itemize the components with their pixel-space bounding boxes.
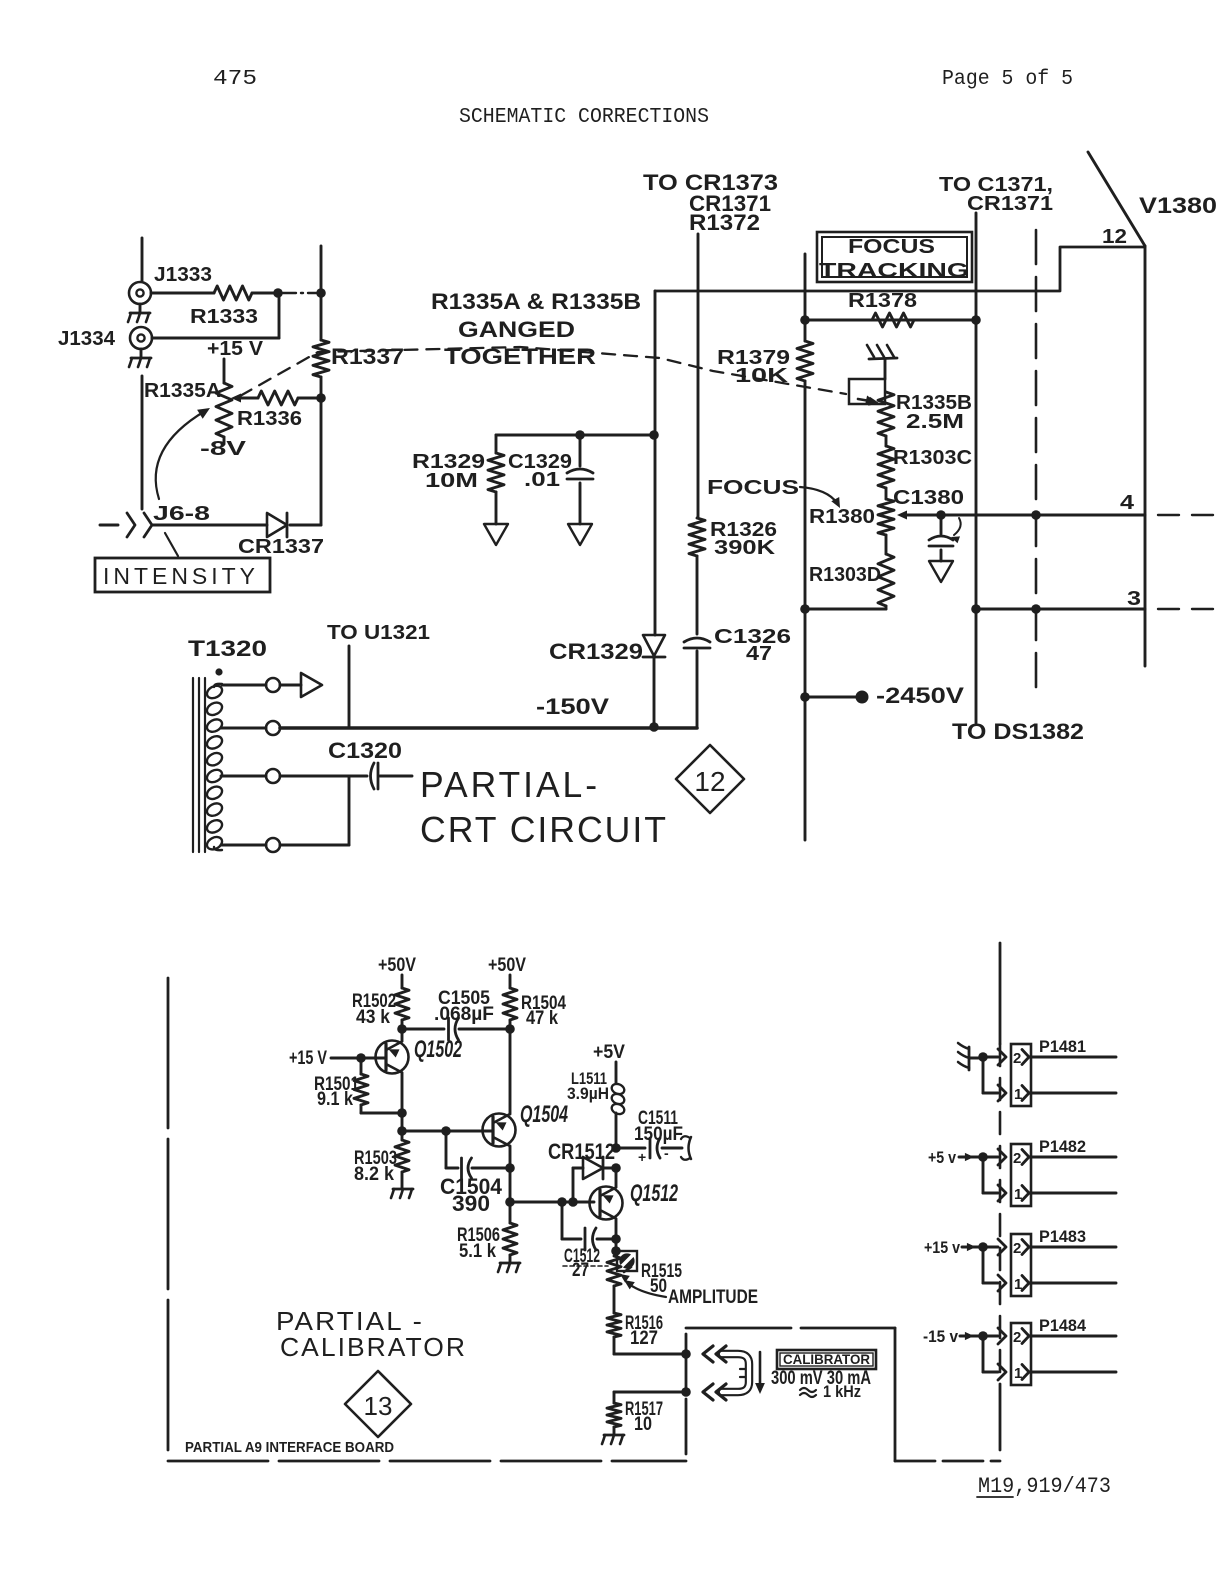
label J1334 <box>58 328 116 350</box>
svg-text:43 k: 43 k <box>356 1007 390 1028</box>
label R1337 <box>331 344 404 369</box>
svg-text:C1320: C1320 <box>328 738 402 763</box>
cal loop arrows bottom <box>703 1384 726 1400</box>
capacitor C1320 <box>371 763 379 789</box>
label R1506 <box>457 1225 500 1262</box>
label C1380 <box>893 487 964 509</box>
svg-text:INTENSITY: INTENSITY <box>103 563 259 589</box>
label CR1337 <box>238 536 324 558</box>
svg-text:Q1502: Q1502 <box>414 1036 462 1063</box>
connector P1484 body <box>1011 1323 1031 1385</box>
P1481 tie wire <box>978 1052 998 1093</box>
wire to Q1504 base <box>402 1130 493 1133</box>
resistor R1333 <box>214 286 252 300</box>
wire left vertical to J6-8 <box>141 376 144 509</box>
label R1503 <box>354 1148 397 1185</box>
svg-text:C1380: C1380 <box>893 487 964 509</box>
label 300mV 30mA <box>771 1368 871 1389</box>
svg-text:+: + <box>638 1149 646 1165</box>
svg-text:+50V: +50V <box>378 955 416 976</box>
wire tap1 <box>222 684 266 687</box>
label R1504 <box>521 993 566 1029</box>
svg-text:TO U1321: TO U1321 <box>327 622 430 644</box>
label C1505 <box>434 988 494 1025</box>
svg-text:12: 12 <box>1102 226 1127 248</box>
arrow +15V feed <box>962 1243 983 1251</box>
P1481 pin 1 <box>1014 1086 1116 1104</box>
label TO U1321 <box>327 622 430 644</box>
resistor R1504 <box>503 988 517 1029</box>
resistor R1336 <box>258 391 298 405</box>
wire tap1 to arrow <box>280 684 301 687</box>
node R1501 top <box>356 1053 366 1063</box>
flag diamond 12 <box>676 745 744 813</box>
label P1483 <box>1039 1227 1086 1246</box>
diode CR1329 <box>643 635 665 657</box>
wire C1512 branch <box>562 1202 581 1239</box>
wire C1512 right <box>597 1238 616 1241</box>
node CR1512/collector <box>611 1163 621 1173</box>
svg-text:M19,919/473: M19,919/473 <box>978 1474 1111 1499</box>
svg-text:3.9µH: 3.9µH <box>567 1084 609 1103</box>
wire C1320 right <box>380 775 412 778</box>
wire C1511 right <box>662 1147 682 1150</box>
label pin 4 <box>1120 492 1135 514</box>
svg-text:CR1371: CR1371 <box>967 193 1053 215</box>
ground under C1329 <box>568 524 592 545</box>
curved arrow C1380 <box>951 518 961 543</box>
wire R1333 to node <box>252 292 278 295</box>
page header Page 5 of 5 <box>942 68 1073 91</box>
svg-text:CR1512: CR1512 <box>548 1139 615 1164</box>
label R1335B <box>896 392 972 433</box>
svg-text:2: 2 <box>1013 1050 1021 1067</box>
label Q1512 <box>630 1180 678 1207</box>
label C1512 <box>563 1246 608 1281</box>
terminal tap1 <box>266 678 280 692</box>
wire +50V right <box>509 975 512 988</box>
node C1380 tap <box>936 510 946 520</box>
svg-text:Q1504: Q1504 <box>520 1101 568 1128</box>
P1484 pin 2 <box>1013 1329 1116 1347</box>
node pin3 dash cross <box>1031 604 1041 614</box>
label R1379 <box>717 347 790 387</box>
svg-text:5.1 k: 5.1 k <box>459 1241 496 1262</box>
note GANGED <box>458 317 575 342</box>
label +5V feed <box>928 1148 956 1167</box>
terminal tap3 <box>266 769 280 783</box>
wire R1326 to C1326 <box>696 556 699 634</box>
wire Q1512 collector <box>615 1168 618 1187</box>
label box CALIBRATOR <box>777 1350 876 1369</box>
resistor R1378 <box>872 313 914 327</box>
transistor Q1512 <box>590 1187 623 1220</box>
flag diamond 13 <box>345 1371 411 1437</box>
dashed vertical DS1382 net <box>1035 230 1038 688</box>
label C1326 <box>714 626 791 665</box>
svg-text:CR1329: CR1329 <box>549 639 643 664</box>
svg-text:CR1337: CR1337 <box>238 536 324 558</box>
node C1504 top <box>441 1126 451 1136</box>
node CR1512 bottom <box>568 1197 578 1207</box>
label C1504 <box>440 1174 503 1216</box>
wire C1505 left <box>402 1028 444 1031</box>
P1482 pin 1 <box>1014 1186 1116 1204</box>
connector J1333 <box>129 282 151 304</box>
node R1504 bottom <box>505 1024 515 1034</box>
svg-text:SCHEMATIC CORRECTIONS: SCHEMATIC CORRECTIONS <box>459 106 709 129</box>
wire CR1329 to -150V <box>653 657 656 727</box>
svg-text:R1333: R1333 <box>190 306 258 328</box>
wire Q1502 emitter down <box>401 1073 404 1131</box>
wire TO U1321 vertical <box>348 646 351 727</box>
svg-text:+50V: +50V <box>488 955 526 976</box>
wire Q1512 emitter <box>615 1219 618 1251</box>
wire C1505 right <box>459 1028 510 1031</box>
node C1511 tap <box>611 1143 621 1153</box>
wire CR1512 branch <box>573 1168 583 1202</box>
wire R1517 to cal loop <box>614 1391 686 1394</box>
P1483 entry chevron pin2 <box>998 1239 1006 1255</box>
wiper arrow R1335A <box>231 394 258 403</box>
capacitor C1329 <box>567 435 593 524</box>
svg-text:P1484: P1484 <box>1039 1316 1087 1335</box>
svg-text:+15 v: +15 v <box>924 1238 960 1257</box>
terminal -2450V <box>856 691 869 704</box>
wire emitter node down <box>509 1168 512 1202</box>
svg-text:CALIBRATOR: CALIBRATOR <box>783 1351 870 1367</box>
inductor L1511 <box>610 1082 626 1116</box>
svg-text:+15 V: +15 V <box>289 1048 327 1069</box>
wire R1379 vertical top <box>804 254 807 341</box>
P1484 tie wire <box>978 1331 998 1372</box>
wire tap3 <box>221 775 266 778</box>
label FOCUS with leader <box>707 477 840 508</box>
note TOGETHER <box>444 344 596 369</box>
label R1516 <box>625 1313 663 1349</box>
svg-text:2.5M: 2.5M <box>906 411 964 433</box>
P1483 entry chevron pin1 <box>998 1275 1006 1291</box>
label R1502 <box>352 991 396 1028</box>
label R1335A <box>144 380 221 402</box>
label R1329 <box>412 451 485 492</box>
page header number 475 <box>213 68 257 91</box>
node emitter/R1501 <box>397 1108 407 1118</box>
potentiometer R1380 <box>878 488 894 535</box>
label P1484 <box>1039 1316 1087 1335</box>
svg-text:R1378: R1378 <box>848 290 917 312</box>
wire R1379 down <box>804 381 807 609</box>
label +15V <box>207 338 264 360</box>
svg-text:TO DS1382: TO DS1382 <box>952 719 1084 744</box>
svg-text:10M: 10M <box>425 470 478 492</box>
svg-text:CRT CIRCUIT: CRT CIRCUIT <box>420 809 668 850</box>
dashed gang line <box>240 347 876 404</box>
node R1378 right <box>971 315 981 325</box>
label C1320 <box>328 738 402 763</box>
svg-text:8.2 k: 8.2 k <box>354 1164 394 1185</box>
wire stub above J1333 <box>141 238 144 281</box>
node R1378 left <box>800 315 810 325</box>
wire J6-8 to CR1337 <box>152 524 267 527</box>
label -2450V <box>876 683 964 708</box>
svg-text:P1481: P1481 <box>1039 1037 1086 1056</box>
svg-text:+5 v: +5 v <box>928 1148 956 1167</box>
adjust box R1335B <box>849 379 885 406</box>
svg-text:Page 5 of 5: Page 5 of 5 <box>942 68 1073 91</box>
label -8V <box>200 438 247 460</box>
wire -150V rail <box>280 726 697 730</box>
label TO CR1373 <box>643 170 778 195</box>
svg-text:J1333: J1333 <box>154 264 212 286</box>
resistor R1502 <box>395 988 409 1029</box>
svg-text:R1303C: R1303C <box>893 447 972 469</box>
svg-text:R1372: R1372 <box>689 210 760 235</box>
potentiometer R1515 <box>607 1256 621 1286</box>
svg-text:.01: .01 <box>524 469 560 491</box>
wire Q1504 collector <box>509 1029 512 1114</box>
svg-text:47 k: 47 k <box>526 1008 558 1029</box>
svg-text:13: 13 <box>364 1391 393 1421</box>
label CR1329 <box>549 639 643 664</box>
P1484 entry chevron pin2 <box>998 1328 1006 1344</box>
wire tap4 <box>221 844 266 847</box>
chassis ground under R1517 <box>602 1427 624 1444</box>
chassis ground above R1335B <box>867 345 897 379</box>
board outline notch <box>686 1328 1000 1461</box>
dashed pin4 continuation <box>1158 514 1222 516</box>
resistor R1337 <box>313 340 329 377</box>
svg-text:PARTIAL A9 INTERFACE BOARD: PARTIAL A9 INTERFACE BOARD <box>185 1439 394 1456</box>
wire tap3 to C1320 <box>280 775 367 778</box>
svg-text:R1335A: R1335A <box>144 380 221 402</box>
svg-text:R1335A & R1335B: R1335A & R1335B <box>431 289 641 314</box>
label CALIBRATOR text <box>280 1332 467 1362</box>
wire Q1502 collector <box>401 1029 404 1041</box>
node pin4 dash cross <box>1031 510 1041 520</box>
label J1333 <box>154 264 212 286</box>
note R1335A and R1335B <box>431 289 641 314</box>
transistor Q1504 <box>483 1114 516 1147</box>
label PARTIAL- (calibrator) <box>276 1306 424 1336</box>
wire R1516 to cal loop <box>614 1337 686 1354</box>
label +50V left <box>378 955 416 976</box>
svg-text:47: 47 <box>746 643 772 665</box>
capacitor C1326 <box>684 638 710 648</box>
leader J6-8 to INTENSITY <box>165 533 178 556</box>
label TO C1371 <box>939 174 1053 196</box>
label V1380 <box>1139 193 1217 218</box>
label L1511 <box>567 1069 609 1103</box>
svg-text:P1482: P1482 <box>1039 1137 1086 1156</box>
wire R1329 top rail <box>496 434 655 437</box>
resistor R1516 <box>607 1313 621 1337</box>
node C1504/emitter <box>505 1163 515 1173</box>
svg-text:TRACKING: TRACKING <box>819 260 969 282</box>
dashed pin3 continuation <box>1158 608 1222 610</box>
P1483 tie wire <box>978 1242 998 1283</box>
label P1481 <box>1039 1037 1086 1056</box>
svg-text:1 kHz: 1 kHz <box>823 1382 861 1401</box>
potentiometer R1335A <box>216 383 232 437</box>
label R1303D <box>809 564 881 586</box>
wire TO-C1371 vertical <box>975 213 978 723</box>
wire +15V to base <box>331 1057 386 1060</box>
svg-text:2: 2 <box>1013 1240 1021 1257</box>
wiper arrow R1380 <box>897 511 941 520</box>
wire R1378 rail <box>805 319 976 322</box>
label R1336 <box>237 408 302 430</box>
diode CR1337 <box>267 513 287 537</box>
resistor R1501 <box>354 1058 368 1113</box>
svg-text:AMPLITUDE: AMPLITUDE <box>668 1287 758 1308</box>
ground under C1380 <box>929 561 953 582</box>
P1482 entry chevron pin1 <box>998 1185 1006 1201</box>
chassis ground under R1506 <box>498 1263 520 1272</box>
resistor R1517 <box>607 1392 621 1427</box>
wire x805 lower vertical <box>804 609 807 840</box>
resistor R1506 <box>503 1202 517 1262</box>
svg-text:127: 127 <box>630 1328 658 1349</box>
label box INTENSITY <box>95 558 270 592</box>
label C1511 <box>634 1108 683 1145</box>
P1484 entry chevron pin1 <box>998 1364 1006 1380</box>
wire R1337 to node <box>320 377 323 398</box>
label R1372 <box>689 210 760 235</box>
node -150V junction <box>649 722 659 732</box>
curved arrow to R1335A wiper <box>156 408 210 499</box>
svg-text:R1303D: R1303D <box>809 564 881 586</box>
connector P1483 body <box>1011 1234 1031 1296</box>
svg-text:P1483: P1483 <box>1039 1227 1086 1246</box>
svg-text:R1336: R1336 <box>237 408 302 430</box>
P1481 entry chevron pin1 <box>998 1085 1006 1101</box>
connector J1334 <box>130 327 152 349</box>
node R1515 top <box>611 1246 621 1256</box>
label -150V <box>536 694 609 719</box>
label R1517 <box>625 1399 663 1435</box>
P1482 tie wire <box>978 1152 998 1193</box>
ground under R1329 <box>484 524 508 545</box>
resistor R1503 <box>395 1131 409 1188</box>
label +15V feed <box>924 1238 960 1257</box>
svg-text:-8V: -8V <box>200 438 247 460</box>
svg-text:390: 390 <box>452 1191 490 1216</box>
svg-text:475: 475 <box>213 68 257 91</box>
node C1512 top <box>557 1197 567 1207</box>
label R1501 <box>314 1074 359 1110</box>
label CR1512 <box>548 1139 615 1164</box>
wire C1504 branch <box>446 1131 458 1168</box>
node J1333 net <box>273 288 283 298</box>
P1483 pin 1 <box>1014 1276 1116 1294</box>
svg-text:10K: 10K <box>735 365 789 387</box>
connector stub E <box>681 1136 691 1160</box>
node x655 top-wire <box>649 430 659 440</box>
node cal top <box>681 1349 691 1359</box>
label AMPLITUDE <box>624 1280 758 1308</box>
P1482 entry chevron pin2 <box>998 1149 1006 1165</box>
wire middle vertical x655 <box>654 291 657 635</box>
wire J1333 to R1333 <box>151 292 214 295</box>
transformer T1320 core <box>193 678 205 852</box>
cal loop tube <box>722 1354 749 1392</box>
wire R1515 to R1516 <box>613 1286 616 1313</box>
P1481 entry chevron pin2 <box>998 1049 1006 1065</box>
capacitor C1504 <box>462 1158 472 1178</box>
node R1337 top <box>316 288 326 298</box>
label C1329 <box>508 451 572 491</box>
label +15V calibrator <box>289 1048 327 1069</box>
label box FOCUS TRACKING <box>817 232 972 282</box>
svg-text:4: 4 <box>1120 492 1135 514</box>
label approx 1kHz <box>800 1382 861 1401</box>
transformer T1320 winding <box>205 683 224 852</box>
label -15V feed <box>923 1327 958 1346</box>
label M19,919/473 <box>977 1474 1111 1499</box>
diode CR1512 <box>583 1157 603 1179</box>
transistor Q1502 <box>376 1041 409 1074</box>
resistor R1326 <box>689 518 705 556</box>
title SCHEMATIC CORRECTIONS <box>459 106 709 129</box>
capacitor C1380 <box>929 515 953 561</box>
cal loop arrows top <box>703 1346 726 1362</box>
svg-text:-15 v: -15 v <box>923 1327 958 1346</box>
wire tap2 <box>221 727 266 730</box>
wire C1326 to -150V line <box>696 651 699 727</box>
node pin3 left <box>971 604 981 614</box>
wire C1504 right <box>472 1167 510 1170</box>
P1483 pin 2 <box>1013 1240 1116 1258</box>
wire +15V to R1335A <box>223 359 226 383</box>
label TO DS1382 <box>952 719 1084 744</box>
ground under J1334 <box>129 349 151 367</box>
svg-text:12: 12 <box>694 766 725 797</box>
connector J6-8 chevrons <box>127 513 152 537</box>
label R1333 <box>190 306 258 328</box>
P1482 pin 2 <box>1013 1150 1116 1168</box>
label R1380 <box>809 506 875 528</box>
svg-text:2: 2 <box>1013 1329 1021 1346</box>
board edge dashed vertical <box>999 943 1002 1450</box>
tube V1380 envelope line <box>1088 152 1145 246</box>
resistor R1303D <box>878 535 894 606</box>
resistor R1303C <box>878 436 894 488</box>
label P1482 <box>1039 1137 1086 1156</box>
label +5V <box>593 1042 625 1063</box>
svg-text:3: 3 <box>1127 588 1141 610</box>
svg-text:J1334: J1334 <box>58 328 116 350</box>
label +50V right <box>488 955 526 976</box>
capacitor C1511 <box>638 1138 669 1165</box>
wire L1511 to node <box>615 1113 618 1148</box>
ground under J1333 <box>128 304 150 322</box>
arrow -15V feed <box>960 1332 983 1340</box>
board outline left dashed <box>167 978 170 1461</box>
wire R1335A to -8V <box>223 437 226 444</box>
capacitor C1512 <box>585 1228 596 1250</box>
label J6-8 <box>153 503 210 525</box>
screwdriver adjust R1515 <box>617 1251 637 1283</box>
svg-text:J6-8: J6-8 <box>153 503 210 525</box>
resistor R1379 <box>797 341 813 381</box>
wire R1337 top vertical <box>320 246 323 340</box>
svg-text:2: 2 <box>1013 1150 1021 1167</box>
label CR1371 right <box>967 193 1053 215</box>
svg-text:390K: 390K <box>714 537 776 559</box>
label Q1502 <box>414 1036 462 1063</box>
label CRT CIRCUIT <box>420 809 668 850</box>
